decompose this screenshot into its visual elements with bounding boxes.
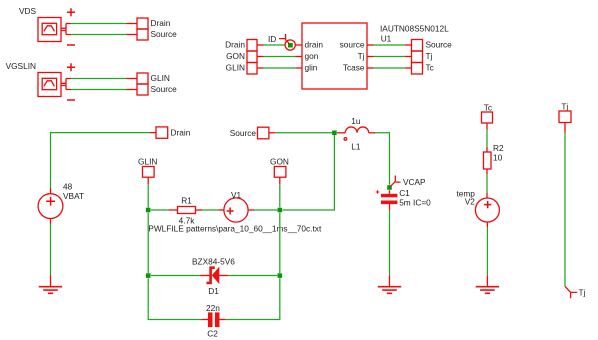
wire R1 to V1 [196,209,203,211]
wire VDS+ to Drain terminal [71,23,127,25]
wire VDS- to Source terminal [71,34,127,36]
svg-text:GLIN: GLIN [138,156,157,166]
probe VGSLIN body [38,73,71,97]
svg-text:Tcase: Tcase [343,63,365,73]
junction GLIN/D1 [146,273,151,278]
svg-text:IAUTN08S5N012L: IAUTN08S5N012L [380,24,449,34]
svg-text:gon: gon [305,51,319,61]
wire GLIN junction down to D1 junction [147,213,149,273]
terminal Tj (U1 right) [412,51,423,63]
svg-text:Drain: Drain [171,127,191,137]
svg-text:5m IC=0: 5m IC=0 [399,197,431,207]
wire Source terminal to junction [269,132,276,134]
svg-text:D1: D1 [208,286,219,296]
svg-text:Tc: Tc [484,102,492,112]
svg-text:L1: L1 [351,142,361,152]
probe Tj [565,286,577,298]
ground (V2) [476,287,499,294]
probe VCAP [390,176,400,187]
wire C1 to ground [389,210,391,275]
svg-text:V2: V2 [465,197,476,207]
svg-text:22n: 22n [206,303,220,313]
probe VDS body [38,18,71,42]
probe VGSLIN minus sign [67,99,75,101]
svg-text:Tj: Tj [358,51,365,61]
inductor L1 1u [337,127,375,140]
terminal Drain (top) [156,127,168,138]
voltage source V1 [224,198,248,222]
wire VGSLIN- to Source terminal [71,89,127,91]
svg-text:Tj: Tj [426,51,433,61]
svg-text:GON: GON [270,156,289,166]
svg-text:Tc: Tc [426,63,434,73]
svg-text:Source: Source [426,40,453,50]
terminal Source (VDS) [137,29,148,40]
wire GON terminal to U1 gon pin [257,56,264,58]
svg-text:48: 48 [63,181,73,191]
svg-text:GLIN: GLIN [151,73,170,83]
svg-text:GON: GON [226,51,245,61]
diode D1 zener BZX84-5V6 [207,268,219,283]
current probe ID [279,34,295,50]
wire GLIN terminal to U1 glin pin [257,67,264,69]
svg-text:V1: V1 [231,190,242,200]
terminal GON (U1) [247,51,257,63]
terminal Tj [559,111,571,123]
wire U1 source pin to Source terminal [367,44,374,46]
wire VGSLIN+ to GLIN terminal [71,78,127,80]
wire Tj terminal down [564,123,566,133]
wire D1 left [151,275,200,277]
svg-text:U1: U1 [381,33,392,43]
terminal Source (VGSLIN) [137,84,148,95]
terminal GLIN (VGSLIN) [137,73,148,84]
svg-text:VBAT: VBAT [63,191,84,201]
junction GON/V1 [278,208,283,213]
resistor R1 [178,207,196,214]
junction GON/D1 [278,273,283,278]
svg-text:ID: ID [268,34,276,44]
svg-text:GLIN: GLIN [226,63,245,73]
svg-text:10: 10 [493,153,503,163]
wire V2 to ground [486,222,488,227]
svg-text:1u: 1u [351,116,361,126]
wire Tc to R2 [486,123,488,130]
terminal Tc (U1 right) [412,63,423,75]
terminal Source (bottom) [258,127,269,139]
wire R2 to V2 [486,169,488,175]
probe VDS plus sign [67,8,75,16]
ground (C1) [378,287,401,294]
svg-text:Source: Source [230,128,257,138]
junction VCAP probe [387,185,392,190]
wire D1 right [219,275,228,277]
terminal Tc [482,112,493,123]
probe VGSLIN plus sign [67,63,75,71]
terminal GLIN [143,167,155,178]
capacitor C1 5m [376,190,398,210]
wire U1 Tj pin to Tj terminal [367,56,374,58]
wire U1 Tcase pin to Tc terminal [367,67,374,69]
capacitor C2 22n [202,312,226,327]
voltage source V2 temp [475,198,499,222]
junction GLIN/R1 [146,208,151,213]
svg-text:Drain: Drain [225,40,245,50]
svg-text:Source: Source [151,84,178,94]
svg-text:Tj: Tj [561,101,568,111]
wire Drain terminal to U1 drain pin [257,44,264,46]
svg-text:Tj: Tj [579,288,586,298]
svg-text:VDS: VDS [19,6,37,16]
terminal Drain (VDS) [137,18,148,29]
wire L1 to C1 [375,133,389,185]
svg-text:BZX84-5V6: BZX84-5V6 [192,256,235,266]
ground (VBAT) [39,287,62,294]
wire junction to R1 [151,209,169,211]
wire junction to Source riser [283,135,335,210]
resistor R2 [484,152,492,169]
wire GON junction down to D1 junction [279,213,281,273]
svg-text:VCAP: VCAP [403,177,426,187]
svg-text:glin: glin [305,63,318,73]
op-amp U1 subcircuit box IAUTN08S5N012L [302,23,367,89]
wire V1 to GON junction [248,209,254,211]
terminal GLIN (U1) [247,63,257,75]
svg-text:Source: Source [151,29,178,39]
svg-text:source: source [340,40,365,50]
wire GLIN terminal down [147,177,149,185]
wire GON terminal down [279,177,281,185]
terminal GON [274,167,286,178]
wire VBAT to Drain terminal [51,133,151,188]
voltage source V3 VBAT [38,188,63,224]
wire GLIN D1-junction down to C2 [148,278,201,319]
svg-text:VGSLIN: VGSLIN [6,61,36,71]
terminal Source (U1 right) [412,40,423,52]
wire GON D1-junction down to C2 [225,278,279,319]
svg-text:R1: R1 [181,195,192,205]
svg-text:C2: C2 [207,328,218,338]
svg-text:PWLFILE patterns\para_10_60__1: PWLFILE patterns\para_10_60__1ms__70c.tx… [148,224,322,234]
svg-text:drain: drain [305,40,324,50]
terminal Drain (U1) [247,40,257,52]
junction Source/L1 [332,131,337,136]
probe VDS minus sign [67,44,75,46]
wire VBAT to ground [50,224,52,275]
svg-text:Drain: Drain [151,18,171,28]
